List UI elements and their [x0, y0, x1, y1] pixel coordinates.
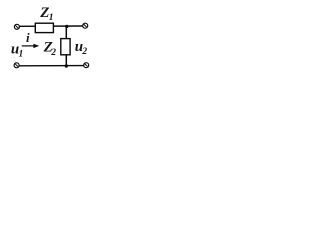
- terminal top-left: [14, 24, 19, 29]
- label u1: [11, 42, 23, 60]
- svg-text:i: i: [26, 30, 30, 45]
- terminal bottom-left: [14, 63, 19, 68]
- svg-text:1: 1: [19, 49, 24, 59]
- label u2: [75, 39, 88, 57]
- label Z1: [39, 5, 53, 23]
- node top junction: [65, 25, 68, 28]
- wire Z2 top lead: [65, 26, 67, 39]
- label Z2: [43, 40, 57, 58]
- impedance Z2: [61, 39, 70, 55]
- node bottom junction: [65, 64, 68, 67]
- svg-text:2: 2: [50, 48, 56, 58]
- svg-text:2: 2: [81, 47, 87, 57]
- impedance Z1: [35, 23, 53, 32]
- svg-text:1: 1: [49, 13, 54, 23]
- current arrow: [22, 44, 39, 48]
- terminal top-right: [83, 23, 88, 28]
- wire Z2 bottom lead: [65, 54, 67, 66]
- terminal bottom-right: [84, 63, 89, 68]
- wire top rail: [19, 25, 82, 27]
- wire bottom rail: [19, 65, 84, 67]
